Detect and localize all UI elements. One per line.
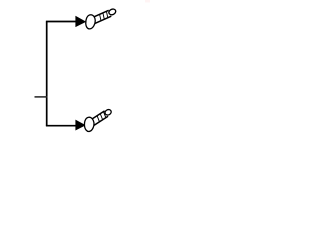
wire: vertical bus [46,22,48,126]
screw top: cap [108,8,117,16]
wire: top branch [46,21,77,23]
screw bottom: cap [104,109,112,116]
screw bottom: shaft [90,111,108,126]
arrowhead top [75,16,86,27]
screw top: head [86,15,96,29]
wire: bottom branch [46,125,77,127]
wire: left stub [35,96,48,98]
screw bottom: head [84,117,95,132]
screw top: shaft [92,10,111,23]
arrowhead bottom [75,120,85,131]
faint corner smudge [145,0,150,3]
